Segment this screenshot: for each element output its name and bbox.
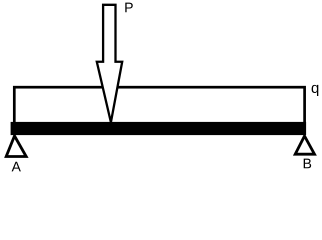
- beam: [11, 122, 307, 135]
- distributed load q outline: [14, 87, 304, 128]
- label q: [312, 85, 319, 96]
- label A: [12, 162, 21, 172]
- label B: [304, 159, 311, 169]
- support A: [6, 136, 26, 157]
- point load arrow P: [97, 5, 122, 123]
- support B: [295, 136, 314, 154]
- label P: [125, 3, 132, 13]
